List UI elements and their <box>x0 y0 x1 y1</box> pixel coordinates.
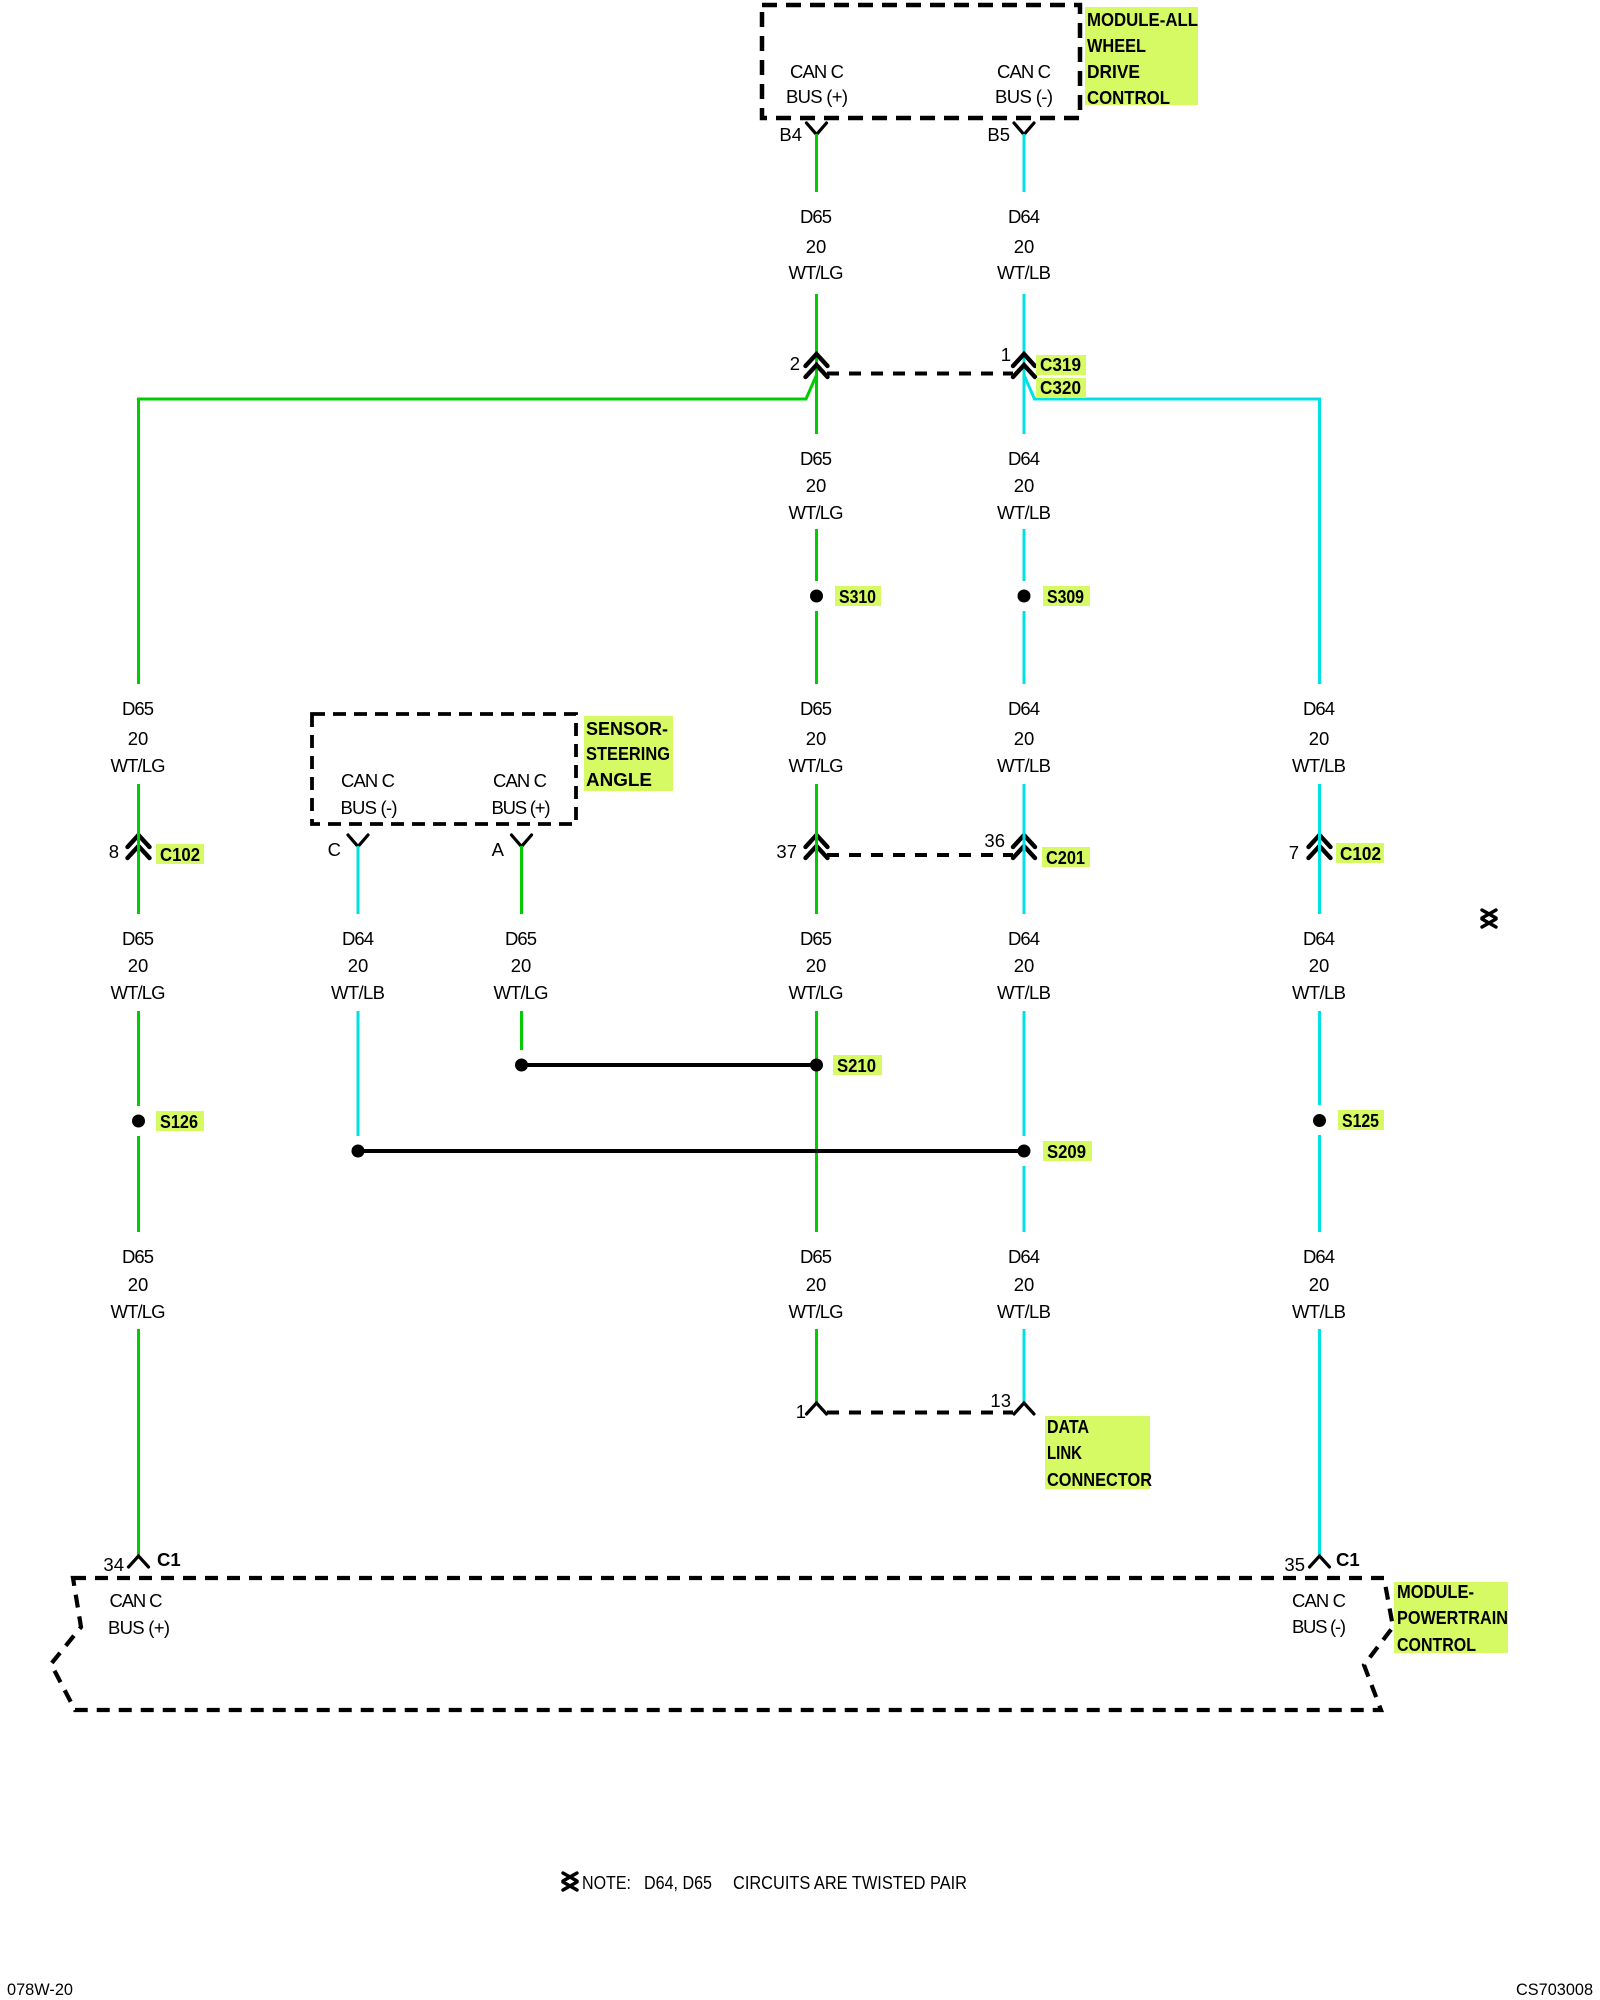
U1 pin name CAN C BUS (+) <box>786 61 848 107</box>
svg-text:WT/LG: WT/LG <box>111 1301 166 1322</box>
label SENSOR-STEERING ANGLE <box>584 716 673 791</box>
svg-text:1: 1 <box>1001 344 1011 365</box>
svg-text:S310: S310 <box>839 586 876 607</box>
splice S209 dot right <box>1018 1145 1031 1158</box>
svg-text:D65: D65 <box>122 928 154 949</box>
U3 pin name CAN C BUS (+) <box>108 1590 170 1638</box>
svg-text:8: 8 <box>109 841 119 862</box>
svg-text:A: A <box>492 839 505 860</box>
svg-text:BUS (+): BUS (+) <box>786 86 848 107</box>
svg-text:D65: D65 <box>800 928 832 949</box>
svg-text:WT/LG: WT/LG <box>111 755 166 776</box>
svg-text:20: 20 <box>511 955 532 976</box>
svg-text:WT/LG: WT/LG <box>494 982 549 1003</box>
svg-text:2: 2 <box>790 353 800 374</box>
connector C201 chevron pin 37 <box>806 835 828 858</box>
svg-text:C102: C102 <box>1340 843 1381 864</box>
svg-text:C1: C1 <box>1336 1549 1360 1570</box>
svg-text:WT/LB: WT/LB <box>997 502 1051 523</box>
wire col6 segment to stack D <box>1318 784 1321 914</box>
svg-text:D65: D65 <box>800 698 832 719</box>
dashed link DLC <box>827 1411 1013 1415</box>
svg-text:D64, D65: D64, D65 <box>644 1872 712 1893</box>
svg-text:WT/LB: WT/LB <box>1292 755 1346 776</box>
svg-text:D64: D64 <box>1303 698 1335 719</box>
wire col5 segment stack D to S209 <box>1023 1011 1026 1136</box>
label C201 <box>1042 847 1090 868</box>
svg-text:D64: D64 <box>1303 928 1335 949</box>
svg-text:WT/LB: WT/LB <box>997 1301 1051 1322</box>
svg-text:CAN C: CAN C <box>1292 1590 1346 1611</box>
pin A connector <box>512 835 532 847</box>
wire D65 branch to left run <box>139 375 817 684</box>
svg-text:C: C <box>328 839 341 860</box>
svg-text:S125: S125 <box>1342 1110 1379 1131</box>
wire label D64 20 WT/LB stack B <box>997 448 1051 523</box>
svg-text:35: 35 <box>1284 1554 1305 1575</box>
pin B4 connector <box>807 123 827 135</box>
wire D64 segment B5 to label <box>1023 134 1026 192</box>
svg-text:S126: S126 <box>160 1111 198 1132</box>
DLC pin 1 connector <box>807 1403 827 1414</box>
wire col5 segment to stack D <box>1023 784 1026 914</box>
svg-text:20: 20 <box>1014 1274 1035 1295</box>
splice S210 dot right <box>810 1059 823 1072</box>
svg-text:DATA: DATA <box>1047 1416 1089 1437</box>
svg-text:S210: S210 <box>837 1055 876 1076</box>
svg-text:D64: D64 <box>1303 1246 1335 1267</box>
svg-text:D64: D64 <box>1008 448 1040 469</box>
twisted pair symbol right margin <box>1482 910 1496 927</box>
svg-text:20: 20 <box>1309 1274 1330 1295</box>
svg-text:D64: D64 <box>1008 206 1040 227</box>
connector C320 chevron pin 1 <box>1013 354 1035 377</box>
svg-text:13: 13 <box>990 1390 1011 1411</box>
svg-text:20: 20 <box>1309 955 1330 976</box>
svg-text:MODULE-ALL: MODULE-ALL <box>1087 9 1198 30</box>
wire col6 segment to splice S125 <box>1318 1011 1321 1105</box>
splice S209 link line <box>358 1149 1024 1153</box>
svg-text:20: 20 <box>806 728 827 749</box>
svg-text:20: 20 <box>806 236 827 257</box>
svg-text:CAN C: CAN C <box>790 61 844 82</box>
wire col1 segment C102 to stack D <box>137 784 140 914</box>
wire label D65 20 WT/LG stack C col1 <box>111 698 166 776</box>
svg-text:SENSOR-: SENSOR- <box>586 718 668 739</box>
label S210 <box>833 1055 882 1076</box>
wire D64 branch to right run <box>1024 375 1320 684</box>
svg-text:S309: S309 <box>1047 586 1084 607</box>
svg-text:1: 1 <box>796 1401 806 1422</box>
U2 pin name CAN C BUS (-) <box>341 770 398 818</box>
svg-text:CS703008: CS703008 <box>1516 1980 1593 1999</box>
splice S126 dot <box>132 1115 145 1128</box>
wire col1 segment below S126 <box>137 1136 140 1232</box>
wire label D64 20 WT/LB stack D col2 <box>331 928 385 1003</box>
svg-text:DRIVE: DRIVE <box>1087 61 1140 82</box>
connector C319 chevron pin 2 <box>806 354 828 377</box>
svg-text:CIRCUITS ARE TWISTED PAIR: CIRCUITS ARE TWISTED PAIR <box>733 1872 967 1893</box>
wire D65 segment label to C319 junction <box>815 294 818 434</box>
svg-text:BUS (+): BUS (+) <box>492 797 551 818</box>
svg-text:C102: C102 <box>160 844 200 865</box>
splice S209 dot left <box>352 1145 365 1158</box>
svg-text:D64: D64 <box>1008 928 1040 949</box>
pin C connector <box>348 835 368 847</box>
svg-text:D65: D65 <box>800 448 832 469</box>
svg-text:WT/LB: WT/LB <box>331 982 385 1003</box>
wire col5 segment below S209 <box>1023 1166 1026 1232</box>
splice S309 dot <box>1018 590 1031 603</box>
svg-text:20: 20 <box>806 955 827 976</box>
wire D64 segment label to C320 junction <box>1023 294 1026 434</box>
svg-text:C320: C320 <box>1040 377 1081 398</box>
svg-text:20: 20 <box>1014 475 1035 496</box>
svg-text:BUS (-): BUS (-) <box>341 797 398 818</box>
wire D64 segment pin C down <box>357 846 360 914</box>
svg-text:WT/LG: WT/LG <box>789 262 844 283</box>
splice S210 dot left <box>515 1059 528 1072</box>
connector C201 chevron pin 36 <box>1013 835 1035 858</box>
svg-text:C319: C319 <box>1040 354 1081 375</box>
svg-text:CONTROL: CONTROL <box>1397 1634 1476 1655</box>
U2 pin name CAN C BUS (+) <box>492 770 551 818</box>
connector C102 chevron pin 7 <box>1309 835 1331 858</box>
wire label D64 20 WT/LB stack C col6 <box>1292 698 1346 776</box>
svg-text:WT/LG: WT/LG <box>789 502 844 523</box>
svg-text:LINK: LINK <box>1047 1442 1083 1463</box>
label C102 right <box>1336 843 1384 864</box>
wire label D65 20 WT/LG stack D col3 <box>494 928 549 1003</box>
dashed link C201 <box>827 853 1013 857</box>
svg-text:NOTE:: NOTE: <box>582 1872 631 1893</box>
svg-text:B5: B5 <box>987 124 1010 145</box>
wire label D64 20 WT/LB stack D col6 <box>1292 928 1346 1003</box>
svg-text:WT/LB: WT/LB <box>997 262 1051 283</box>
svg-text:WT/LG: WT/LG <box>789 755 844 776</box>
svg-text:20: 20 <box>1014 955 1035 976</box>
wire label D64 20 WT/LB stack A <box>997 206 1051 283</box>
label S125 <box>1338 1110 1384 1131</box>
wire col4 segment stack E to DLC <box>815 1329 818 1403</box>
wire col1 segment to splice S126 <box>137 1011 140 1106</box>
svg-text:CAN C: CAN C <box>997 61 1051 82</box>
wire label D65 20 WT/LG stack A <box>789 206 844 283</box>
svg-text:WT/LG: WT/LG <box>111 982 166 1003</box>
svg-text:D65: D65 <box>505 928 537 949</box>
svg-text:WT/LB: WT/LB <box>997 755 1051 776</box>
svg-text:20: 20 <box>1014 728 1035 749</box>
DLC pin 13 connector <box>1014 1403 1034 1414</box>
wire label D64 20 WT/LB stack E col6 <box>1292 1246 1346 1322</box>
svg-text:20: 20 <box>806 1274 827 1295</box>
svg-text:20: 20 <box>128 728 149 749</box>
svg-text:D64: D64 <box>342 928 374 949</box>
svg-text:20: 20 <box>128 1274 149 1295</box>
label DATA LINK CONNECTOR <box>1045 1416 1152 1490</box>
wire D64 segment below S309 <box>1023 611 1026 684</box>
label C320 <box>1036 377 1086 398</box>
wire label D64 20 WT/LB stack D col5 <box>997 928 1051 1003</box>
svg-text:20: 20 <box>1309 728 1330 749</box>
wire D65 segment B4 to label <box>815 134 818 192</box>
wire col6 segment below S125 <box>1318 1135 1321 1232</box>
svg-text:078W-20: 078W-20 <box>7 1980 73 1999</box>
svg-text:BUS (-): BUS (-) <box>995 86 1053 107</box>
svg-text:D64: D64 <box>1008 1246 1040 1267</box>
splice S125 dot <box>1313 1114 1326 1127</box>
svg-text:S209: S209 <box>1047 1141 1086 1162</box>
label MODULE-ALL WHEEL DRIVE CONTROL <box>1085 7 1198 108</box>
wire label D64 20 WT/LB stack E col5 <box>997 1246 1051 1322</box>
connector C1 pin 35 <box>1310 1556 1330 1567</box>
svg-text:20: 20 <box>348 955 369 976</box>
wire D65 segment to splice S310 <box>815 529 818 581</box>
label C102 left <box>156 844 204 865</box>
svg-text:ANGLE: ANGLE <box>586 769 652 790</box>
U3 pin name CAN C BUS (-) <box>1292 1590 1346 1637</box>
svg-text:7: 7 <box>1289 842 1299 863</box>
wire col4 segment stack D to stack E <box>815 1011 818 1232</box>
svg-text:D65: D65 <box>800 1246 832 1267</box>
dashed link C319-C320 <box>827 372 1013 376</box>
svg-text:B4: B4 <box>779 124 802 145</box>
svg-text:20: 20 <box>1014 236 1035 257</box>
svg-text:D65: D65 <box>122 1246 154 1267</box>
wire col2 segment to splice S209 <box>357 1011 360 1136</box>
svg-text:C201: C201 <box>1046 847 1085 868</box>
svg-text:BUS (-): BUS (-) <box>1292 1616 1346 1637</box>
wire label D65 20 WT/LG stack B <box>789 448 844 523</box>
svg-text:CAN C: CAN C <box>110 1590 163 1611</box>
wire D64 segment to splice S309 <box>1023 529 1026 581</box>
svg-text:WT/LB: WT/LB <box>997 982 1051 1003</box>
svg-text:36: 36 <box>984 830 1005 851</box>
wire label D65 20 WT/LG stack E col4 <box>789 1246 844 1322</box>
wire label D65 20 WT/LG stack E col1 <box>111 1246 166 1322</box>
wire col6 segment stack E to C1 <box>1318 1329 1321 1556</box>
U1 pin name CAN C BUS (-) <box>995 61 1053 107</box>
svg-text:WT/LG: WT/LG <box>789 982 844 1003</box>
svg-text:CAN C: CAN C <box>341 770 395 791</box>
svg-text:WT/LG: WT/LG <box>789 1301 844 1322</box>
module U3 box MODULE-POWERTRAIN CONTROL <box>51 1578 1393 1710</box>
pin B5 connector <box>1014 123 1034 135</box>
note text <box>582 1872 967 1893</box>
label S310 <box>835 586 881 607</box>
svg-text:WT/LB: WT/LB <box>1292 982 1346 1003</box>
wire label D64 20 WT/LB stack C col5 <box>997 698 1051 776</box>
svg-text:CONNECTOR: CONNECTOR <box>1047 1469 1152 1490</box>
svg-text:STEERING: STEERING <box>586 743 670 764</box>
svg-text:D64: D64 <box>1008 698 1040 719</box>
svg-text:CAN C: CAN C <box>493 770 547 791</box>
svg-text:20: 20 <box>806 475 827 496</box>
label MODULE-POWERTRAIN CONTROL <box>1394 1581 1508 1655</box>
wire label D65 20 WT/LG stack D col1 <box>111 928 166 1003</box>
wire label D65 20 WT/LG stack C col4 <box>789 698 844 776</box>
svg-text:CONTROL: CONTROL <box>1087 87 1170 108</box>
svg-text:WHEEL: WHEEL <box>1087 35 1146 56</box>
wire label D65 20 WT/LG stack D col4 <box>789 928 844 1003</box>
svg-text:C1: C1 <box>157 1549 181 1570</box>
wire col5 segment stack E to DLC <box>1023 1329 1026 1403</box>
svg-text:20: 20 <box>128 955 149 976</box>
wire col1 segment stack E to C1 <box>137 1329 140 1556</box>
module U1 box MODULE-ALL WHEEL DRIVE CONTROL <box>762 5 1080 118</box>
wire D65 segment pin A down <box>520 846 523 914</box>
connector C1 pin 34 <box>129 1556 149 1567</box>
label C319 <box>1036 354 1086 375</box>
note twisted pair symbol <box>563 1873 577 1890</box>
svg-text:POWERTRAIN: POWERTRAIN <box>1397 1607 1508 1628</box>
label S309 <box>1043 586 1090 607</box>
wire D65 segment below S310 <box>815 611 818 684</box>
svg-text:34: 34 <box>103 1554 124 1575</box>
svg-text:D65: D65 <box>122 698 154 719</box>
splice S210 link line <box>522 1063 817 1067</box>
svg-text:BUS (+): BUS (+) <box>108 1617 170 1638</box>
splice S310 dot <box>810 590 823 603</box>
connector C102 chevron pin 8 <box>128 835 150 858</box>
module U2 box SENSOR-STEERING ANGLE <box>312 714 576 824</box>
wire col3 segment to splice S210 <box>520 1011 523 1050</box>
label S126 <box>156 1111 204 1132</box>
svg-text:D65: D65 <box>800 206 832 227</box>
svg-text:MODULE-: MODULE- <box>1397 1581 1474 1602</box>
svg-text:37: 37 <box>776 841 797 862</box>
svg-text:WT/LB: WT/LB <box>1292 1301 1346 1322</box>
wire col4 segment to stack D <box>815 784 818 914</box>
label S209 <box>1043 1141 1092 1162</box>
